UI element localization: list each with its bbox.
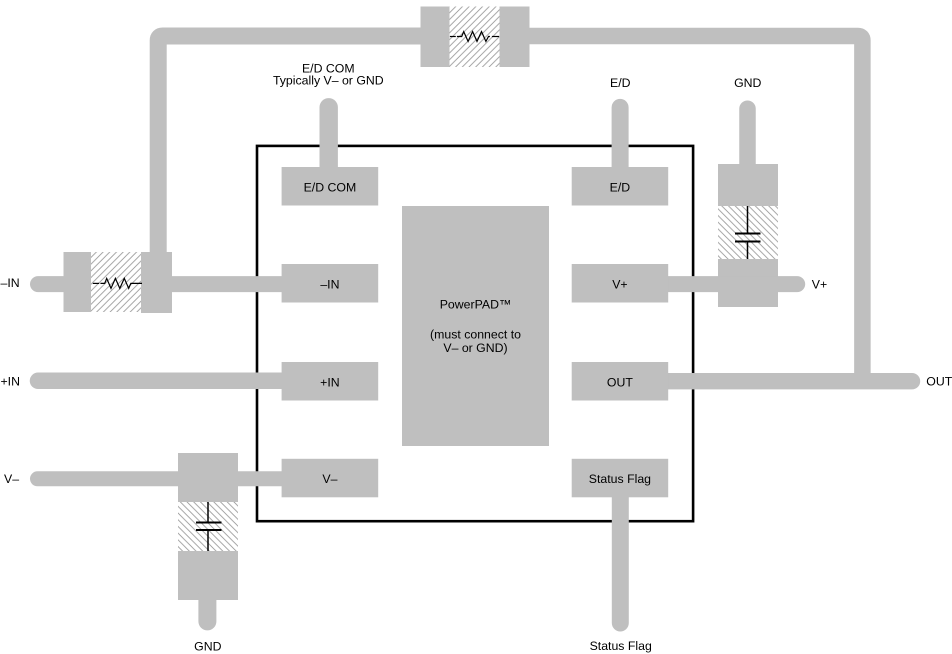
label: net OUT (right connector) [926,375,952,389]
pin pad +IN [282,362,379,401]
capacitor C2 (V+ bypass) top pad [718,164,778,206]
resistor R2 (feedback) [421,7,530,68]
pin pad E/D COM [282,167,379,206]
node: V- junction pad [178,453,238,502]
label: net GND (bottom left) [194,640,221,654]
svg-text:–IN: –IN [320,277,339,291]
wire: feedback trace right (top horizontal to right vertical down to OUT) [529,36,862,381]
node: -IN junction pad [141,252,172,313]
wire: E/D COM stub into package [320,107,338,180]
resistor R2 symbol [450,32,499,42]
wire: -IN input trace from connector [38,276,75,292]
svg-text:Typically V– or GND: Typically V– or GND [273,74,384,88]
label: net +IN (left connector) [1,375,20,389]
svg-text:(must connect to: (must connect to [430,327,521,341]
op-amp U1 package outline [257,146,693,521]
svg-text:OUT: OUT [607,375,633,389]
svg-text:+IN: +IN [1,375,20,389]
svg-text:GND: GND [194,640,221,654]
wire: Status Flag stub below package [612,490,629,623]
pin pad Status Flag [572,459,669,498]
wire: V+ trace from chip pin through C2 pad to connector [660,276,797,292]
pin pad V+ [572,264,669,303]
svg-text:+IN: +IN [320,375,339,389]
label: net E/D COM (top) [273,61,384,87]
wire: +IN input trace [38,373,290,390]
svg-text:E/D: E/D [610,76,631,90]
ground pad of C1 [178,551,238,600]
PowerPAD thermal pad [402,206,549,446]
svg-text:V+: V+ [612,277,627,291]
svg-text:PowerPAD™: PowerPAD™ [440,298,512,312]
node: V+ junction pad (C2 bottom) [718,259,778,307]
wire: -IN junction to chip pin [160,276,290,292]
svg-text:Status Flag: Status Flag [590,639,652,653]
pin pad V- [282,459,379,498]
capacitor C1 (V- bypass) hatch body [178,502,238,551]
svg-text:V– or GND): V– or GND) [443,341,507,355]
label: net -IN (left connector) [1,276,20,290]
svg-text:–IN: –IN [1,276,20,290]
label: net V+ (right connector) [812,277,827,291]
svg-text:E/D: E/D [610,180,631,194]
svg-text:OUT: OUT [926,375,952,389]
svg-text:E/D COM: E/D COM [304,180,357,194]
pin pad E/D [572,167,669,206]
capacitor C2 hatch body [718,206,778,259]
wire: V- input trace [38,471,291,486]
pin pad OUT [572,362,669,401]
label: net GND (top right) [734,76,761,90]
label: net E/D (top) [610,76,631,90]
label: net V- (left connector) [4,472,19,486]
svg-text:Status Flag: Status Flag [589,472,651,486]
resistor R1 (input, -IN) [64,252,142,312]
wire: GND stub below C1 [198,595,216,621]
capacitor C1 symbol [196,502,222,551]
capacitor C2 symbol [735,206,761,259]
svg-text:V–: V– [4,472,19,486]
label: net Status Flag (bottom) [590,639,652,653]
svg-text:V–: V– [322,472,337,486]
wire: GND stub above C2 [739,109,756,170]
svg-text:GND: GND [734,76,761,90]
wire: OUT trace from chip pin to connector [660,373,912,389]
resistor R1 symbol [93,278,142,288]
wire: feedback trace left (vertical from top-left corner down to -IN junction) [158,36,420,256]
wire: E/D stub into package [612,107,629,180]
svg-text:V+: V+ [812,277,827,291]
pin pad -IN [282,264,379,303]
